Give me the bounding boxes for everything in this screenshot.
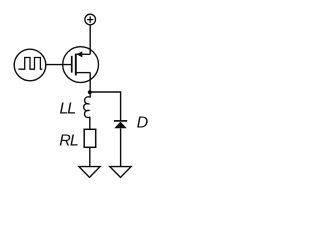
- svg-text:LL: LL: [60, 101, 76, 118]
- diode D: [114, 121, 127, 128]
- power supply V+ terminal: [85, 14, 96, 25]
- ground (right): [110, 167, 131, 178]
- wire: MOSFET source down to node: [89, 73, 91, 98]
- pulse voltage source: [14, 49, 46, 81]
- wire: inductor to resistor: [89, 117, 91, 129]
- node junction dot: [88, 90, 92, 94]
- inductor LL: [84, 97, 90, 118]
- wire: node to diode branch: [90, 92, 121, 121]
- transistor (p-channel MOSFET): [63, 47, 99, 83]
- ground (left): [79, 167, 100, 178]
- wire: diode to ground: [120, 128, 122, 166]
- resistor RL: [84, 129, 96, 147]
- wire: V+ to MOSFET drain: [89, 25, 91, 55]
- wire: pulse source to gate: [46, 64, 72, 66]
- svg-text:RL: RL: [59, 132, 78, 149]
- wire: resistor to ground: [89, 147, 91, 166]
- svg-text:D: D: [137, 115, 149, 132]
